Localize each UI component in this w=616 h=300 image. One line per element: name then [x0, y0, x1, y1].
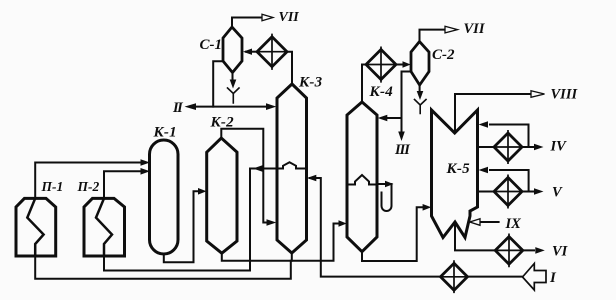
wire K-4 overhead to HX2	[362, 65, 366, 103]
arrowhead II right into K-3	[266, 103, 276, 110]
arrowhead III down	[398, 132, 405, 142]
wire V line	[477, 191, 533, 193]
svg-text:VI: VI	[552, 244, 569, 260]
svg-text:С-1: С-1	[200, 37, 223, 53]
wire C-1 side liquid outlet	[213, 61, 223, 106]
wire C-1 drain	[232, 73, 234, 81]
arrowhead C-1 drain down	[230, 80, 237, 89]
coil P-2	[96, 198, 112, 256]
wire IX inlet	[480, 221, 499, 223]
svg-text:П-1: П-1	[41, 179, 64, 194]
arrowhead IV	[534, 144, 544, 151]
heat exchanger HX-IV	[494, 131, 522, 163]
column K-3	[277, 84, 307, 253]
wire bottoms bus K-2 to K-4 feed riser	[222, 224, 338, 261]
svg-text:II: II	[172, 100, 184, 116]
arrowhead II left	[185, 103, 197, 110]
furnace P-2	[84, 198, 125, 256]
heat exchanger HX1	[257, 35, 287, 70]
furnace P-1	[16, 198, 56, 256]
svg-text:П-2: П-2	[77, 179, 100, 194]
open arrow VII left	[262, 14, 273, 21]
wire P-2 top to K-1 lower inlet	[104, 171, 140, 198]
svg-text:V: V	[552, 185, 563, 201]
wire K-3 overhead riser to HX1	[287, 52, 292, 84]
arrowhead into K-4 right	[378, 115, 388, 122]
svg-text:К-1: К-1	[153, 125, 177, 141]
arrowhead on K-4 draw	[385, 181, 394, 188]
tray K-4	[347, 175, 377, 185]
arrowhead on K-3 draw pointing left	[253, 165, 263, 172]
wire VI from K-5 bottom	[455, 222, 534, 250]
wire IV line	[477, 146, 533, 148]
svg-text:VIII: VIII	[551, 87, 579, 103]
column K-4	[347, 102, 377, 252]
wire K-1 bottom to K-2 side inlet	[164, 191, 198, 262]
arrowhead into K-3 at y222	[267, 219, 277, 226]
separator C-2	[411, 42, 429, 86]
separator C-1	[223, 27, 242, 73]
arrowhead VI	[535, 247, 545, 254]
wire K-4 bottom to K-5 inlet	[362, 207, 423, 261]
wire K-2 overhead to K-3 lower inlet	[221, 129, 266, 223]
wire C-1 overhead from HX to C-1 (arrow into C-1)	[246, 51, 258, 53]
wire P-1 bottom loop to K-3 bottom	[35, 256, 291, 279]
wire VII from C-1 top	[232, 18, 262, 29]
wire VIII from K-5 top	[455, 94, 531, 133]
open arrow VIII	[531, 91, 545, 98]
wire HX2 to C-2	[396, 64, 403, 66]
coil P-1	[27, 198, 43, 256]
wire K-4 side draw with seal loop	[377, 184, 392, 211]
wire P-1 top to K-1 upper inlet	[35, 163, 140, 199]
arrowhead into K-1 upper	[141, 159, 151, 166]
drain funnel C-2	[415, 100, 427, 114]
arrowhead into C-1	[243, 49, 252, 55]
arrowhead into C-2	[403, 61, 411, 68]
wire C-2 side liquid, III branch and K-4 return	[388, 72, 411, 132]
arrowhead into K-1 lower	[141, 168, 151, 175]
svg-text:К-3: К-3	[298, 75, 323, 91]
wire K-3 bottom stub	[291, 253, 293, 261]
svg-text:IX: IX	[505, 216, 522, 232]
column K-5	[432, 110, 478, 238]
arrowhead into K-2	[198, 188, 207, 195]
wire VII from C-2 top	[420, 30, 446, 42]
wire K-5 reflux upper	[490, 125, 529, 148]
heat exchanger HX-I	[441, 261, 468, 292]
arrowhead into K-3 right	[307, 175, 317, 182]
arrowhead into K-5 upper	[479, 121, 489, 128]
svg-text:К-5: К-5	[446, 161, 471, 177]
svg-text:IV: IV	[550, 139, 568, 155]
tray K-3	[277, 162, 307, 168]
open arrow IX pointing left	[470, 219, 480, 226]
arrowhead into K-5 left	[423, 204, 432, 211]
column K-2	[207, 138, 237, 253]
svg-text:К-2: К-2	[210, 115, 235, 131]
wire II line with two arrows	[196, 106, 266, 108]
svg-text:С-2: С-2	[432, 47, 455, 63]
wire I feed line to K-3 right inlet	[310, 178, 523, 277]
svg-text:VII: VII	[279, 10, 300, 25]
svg-text:VII: VII	[464, 21, 486, 37]
wire P-2 bottom loop to K-3 side draw	[104, 169, 277, 271]
heat exchanger HX2	[366, 47, 396, 82]
heat exchanger HX-V	[494, 175, 522, 207]
arrowhead C-2 drain down	[417, 91, 424, 100]
open arrow VII right	[445, 26, 458, 33]
wire K-5 reflux lower	[490, 170, 529, 192]
svg-text:III: III	[394, 142, 411, 158]
heat exchanger HX-VI	[495, 234, 523, 266]
arrowhead into K-4 left	[339, 220, 347, 227]
column K-1	[150, 140, 179, 254]
wire C-2 drain	[419, 85, 421, 92]
block arrow I	[523, 264, 547, 291]
arrowhead into K-5 lower	[479, 167, 489, 174]
svg-text:I: I	[549, 270, 557, 286]
svg-text:К-4: К-4	[369, 84, 394, 100]
arrowhead V	[534, 188, 544, 195]
drain funnel C-1	[228, 88, 240, 103]
